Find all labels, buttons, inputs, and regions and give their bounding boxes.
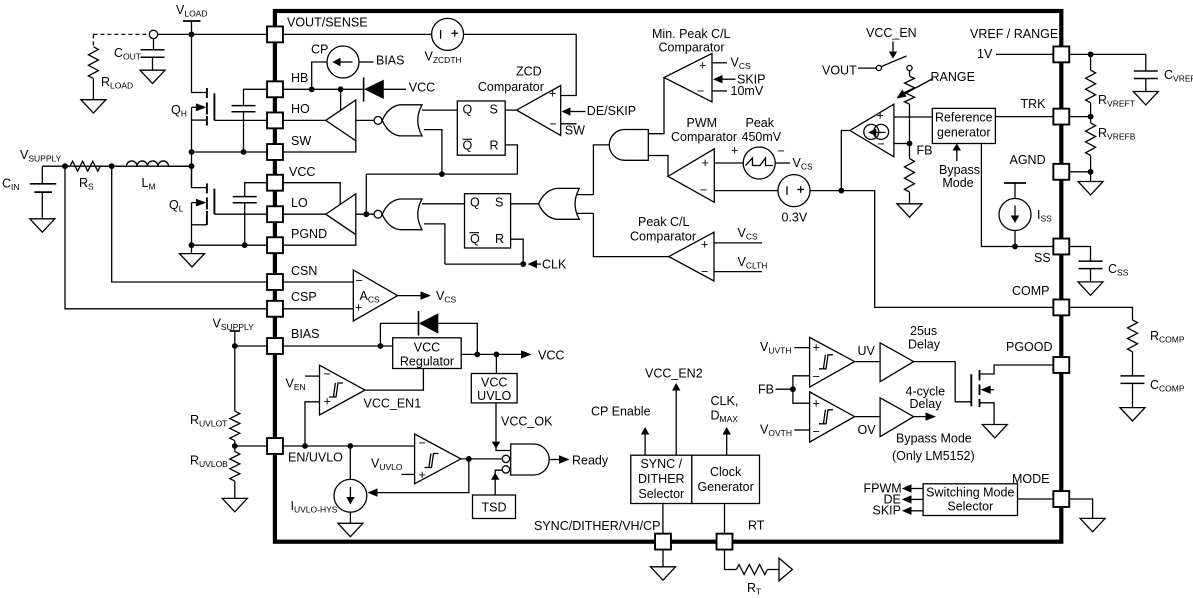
wire CSN sense (112, 166, 267, 282)
label SW (291, 134, 311, 148)
wire OV to delay (855, 416, 881, 418)
wire bar to I_SS (1014, 183, 1016, 199)
label PWM (687, 116, 718, 130)
capacitor C_OUT (141, 50, 165, 58)
label R_S (79, 176, 94, 192)
svg-text:+: + (701, 238, 708, 252)
svg-text:CP: CP (311, 43, 328, 57)
label 10mV (731, 84, 764, 98)
label HO (291, 102, 310, 116)
label FB (917, 144, 933, 158)
wire V_UVTH to UV (794, 347, 809, 349)
svg-text:−: − (697, 84, 704, 98)
junction SW rail (189, 149, 195, 155)
buffer 4-cycle Delay (880, 398, 914, 437)
pin SS (1053, 239, 1069, 255)
wire MinPeak to AND (648, 78, 664, 134)
svg-text:VCC: VCC (481, 376, 507, 390)
pin VCC (267, 175, 283, 191)
label VCC_OK (501, 415, 553, 429)
svg-text:OV: OV (858, 423, 877, 437)
gate OR2 (set) (539, 188, 580, 219)
label Switching Mode (926, 486, 1014, 500)
PWM plus (702, 156, 709, 170)
wire SS pin to C_SS (1070, 247, 1091, 261)
label Peak C/L (638, 215, 689, 229)
junction cross-couple (439, 171, 445, 177)
wire cross-couple to LO net (365, 174, 367, 214)
comparator PWM (668, 149, 714, 203)
output Ready arrow (549, 455, 570, 463)
wire UVLO out (461, 458, 501, 460)
junction V_LOAD node (189, 32, 195, 38)
wire SW net (192, 151, 268, 153)
wire 1V to VREF pin (996, 53, 1053, 55)
PeakCL plus (701, 238, 708, 252)
svg-text:+: + (699, 59, 706, 73)
svg-text:−: − (700, 183, 707, 197)
svg-text:Q: Q (470, 196, 480, 210)
label PWM Comparator (671, 130, 737, 144)
svg-text:+: + (877, 109, 884, 123)
flip-flop FF1 (457, 101, 505, 155)
svg-text:FB: FB (758, 383, 774, 397)
svg-text:SS: SS (1034, 251, 1051, 265)
resistor RANGE (905, 76, 915, 104)
current source CP (327, 46, 359, 78)
label I_UVLO-HYS (291, 499, 338, 515)
wire FB to UV minus (793, 376, 810, 389)
switch blade (881, 56, 906, 67)
capacitor bootstrap C_HB (232, 106, 256, 112)
wire VREF pin to C_VREF (1070, 54, 1146, 70)
label R_UVLOB (190, 454, 228, 470)
label Bypass Mode (942, 176, 973, 190)
wire PWM plus to ramp (714, 162, 744, 164)
label TRK (1021, 97, 1047, 111)
wire PeakCL to OR2 (593, 213, 668, 256)
label FPWM (864, 482, 902, 496)
svg-text:R: R (490, 139, 499, 153)
svg-text:COMP: COMP (1012, 284, 1050, 298)
svg-text:VREF / RANGE: VREF / RANGE (970, 27, 1058, 41)
svg-text:VCC: VCC (409, 81, 435, 95)
svg-text:Peak C/L: Peak C/L (638, 215, 689, 229)
Acs minus (356, 274, 363, 288)
label A_CS (360, 289, 380, 305)
label 4-cycle Delay (910, 397, 943, 411)
label R_UVLOT (190, 413, 227, 429)
label ZCD (516, 65, 542, 79)
label R_T (747, 581, 761, 597)
ground under divider (222, 498, 247, 511)
svg-text:VCC: VCC (538, 349, 564, 363)
buffer 25us Delay (880, 343, 914, 382)
transistor Q_L (192, 183, 215, 225)
wire C_VREF to ground (1145, 79, 1147, 92)
wire to R_UVLOT (234, 346, 236, 411)
pin PGND (267, 237, 283, 253)
label R_VREFB (1098, 126, 1136, 142)
wire QL drain (192, 166, 207, 187)
pin TRK (1053, 109, 1069, 125)
arrow Bypass Mode (953, 144, 961, 162)
wire ZCD to FF1 S (505, 109, 516, 111)
wire V_EN to comparator (305, 375, 320, 377)
svg-text:(Only LM5152): (Only LM5152) (892, 449, 975, 463)
wire HB to CP source (312, 62, 327, 89)
power bar V_SUPPLY (230, 330, 240, 332)
wire EN to VCC_EN1 plus (305, 402, 320, 446)
ground under PGOOD FET (982, 425, 1007, 438)
wire plus input to reference (894, 116, 932, 118)
VCC_EN1 hysteresis (329, 383, 343, 397)
wire bootstrap cap to SW (243, 112, 245, 152)
net label V_SUPPLY (20, 148, 62, 164)
svg-text:BIAS: BIAS (291, 327, 320, 341)
wire VOUT to switch (858, 67, 876, 69)
diode VCC bypass (419, 311, 439, 336)
label RANGE (931, 70, 975, 84)
svg-text:ZCD: ZCD (516, 65, 542, 79)
label VCC net (538, 349, 564, 363)
flip-flop FF2 (465, 194, 511, 248)
label SKIP (737, 73, 766, 87)
label C_COMP (1150, 378, 1185, 394)
wire R_LOAD to ground (92, 79, 94, 100)
block VCC Regulator (393, 338, 462, 369)
label SS (1034, 251, 1051, 265)
label DE/SKIP (587, 104, 636, 118)
label VCC (boot) (409, 81, 435, 95)
label PGND (291, 227, 327, 241)
VCC_EN1 plus (324, 395, 331, 409)
current source I_SS (999, 199, 1031, 231)
label R_COMP (1150, 329, 1185, 345)
wire clock to RT pin (724, 504, 726, 534)
label VCC_EN (866, 26, 917, 40)
block Clock Generator (692, 455, 760, 503)
wire PWM to AND (648, 156, 668, 177)
pin BIAS (267, 338, 283, 354)
wire FF1 Q to NOR1 (422, 109, 457, 111)
svg-text:UVLO: UVLO (477, 389, 511, 403)
FF2 Q label (470, 196, 480, 210)
label 4-cycle (906, 385, 946, 399)
label Vcs (PWM) (793, 156, 813, 172)
comparator UV (810, 337, 855, 387)
label 25us (910, 324, 937, 338)
pin PGOOD (1053, 357, 1069, 373)
bubble Ready input 1 (502, 455, 509, 462)
wire SW-bar stub (561, 123, 577, 125)
wire FF2 S to OR2 (511, 203, 539, 205)
arrow VCC_EN (889, 42, 897, 59)
gate AND (PWM logic) (609, 130, 648, 161)
wire BIAS external (235, 345, 267, 347)
node open circle (VOUT) (149, 30, 157, 38)
FF1 R label (490, 139, 499, 153)
svg-text:Clock: Clock (710, 465, 742, 479)
junction EN hys tap (347, 443, 353, 449)
svg-text:Bypass Mode: Bypass Mode (896, 432, 972, 446)
arrow TSD to gate (491, 470, 502, 495)
wire FF2 R to CLK (511, 239, 524, 264)
svg-text:+: + (731, 144, 738, 158)
svg-text:Q: Q (463, 103, 473, 117)
label MODE (1012, 472, 1050, 486)
ramp minus sign (778, 144, 785, 158)
amplifier A_CS (353, 270, 397, 321)
label CSN (291, 264, 317, 278)
svg-text:25us: 25us (910, 324, 937, 338)
wire R_UVLOT to EN (234, 441, 236, 446)
label CLK (542, 258, 567, 272)
svg-text:Generator: Generator (697, 480, 753, 494)
junction FB uvov (790, 386, 796, 392)
wire Vclth to PeakCL (714, 271, 762, 273)
wire CP to BIAS (359, 61, 374, 63)
wire RT pin to R_T (725, 550, 737, 570)
svg-text:Ready: Ready (572, 454, 609, 468)
wire SW to driver (283, 141, 356, 152)
label TSD (482, 501, 507, 515)
wire R_T to arrow (767, 569, 779, 571)
junction AGND divider (1088, 169, 1094, 175)
wire selector to SYNC pin (662, 504, 664, 534)
svg-text:CLK: CLK (542, 258, 567, 272)
label Reference (935, 111, 993, 125)
svg-text:0.3V: 0.3V (782, 211, 808, 225)
junction FB (907, 141, 913, 147)
input DE/SKIP arrow (562, 107, 586, 115)
pin LO (267, 206, 283, 222)
wire EN/UVLO external (235, 445, 267, 447)
label VOUT (switch) (822, 64, 857, 78)
label PeakCL Comparator (630, 229, 696, 243)
wire switch to RANGE (909, 71, 911, 77)
svg-text:SW: SW (565, 123, 585, 137)
wire Vcs to PeakCL (714, 242, 762, 244)
resistor R_COMP (1128, 320, 1138, 352)
label EN/UVLO (288, 451, 343, 465)
svg-text:Regulator: Regulator (400, 355, 454, 369)
svg-text:SW: SW (291, 134, 311, 148)
wire PGOOD drain to pin (980, 365, 1054, 374)
label Q_H (171, 103, 187, 119)
svg-text:PGND: PGND (291, 227, 327, 241)
gate NOR2 (LO) (374, 199, 422, 230)
PeakCL minus (701, 265, 708, 279)
label DE (884, 493, 901, 507)
svg-text:VCC_OK: VCC_OK (501, 415, 553, 429)
wire EN/UVLO internal (283, 445, 415, 447)
wire cap to PGND (244, 203, 246, 245)
OV minus (813, 425, 820, 439)
dashed wire to R_LOAD (93, 34, 149, 46)
wire CSP sense (65, 166, 267, 309)
label AGND (1010, 153, 1046, 167)
junction EN divider (232, 443, 238, 449)
label Clock (710, 465, 742, 479)
wire VOUT node to VOUT/SENSE pin (158, 33, 267, 35)
ground under C_COMP (1120, 408, 1145, 421)
label V_EN (286, 377, 306, 393)
power bar V_LOAD (183, 20, 201, 22)
label 25us Delay (908, 338, 941, 352)
pin SYNC/DITHER/VH/CP (655, 534, 671, 550)
pin CSP (267, 301, 283, 317)
wire source rail (191, 107, 193, 187)
svg-text:SYNC /: SYNC / (640, 457, 682, 471)
ground under divider (AGND) (1078, 172, 1103, 195)
resistor FB bottom (905, 159, 915, 192)
UV minus (813, 370, 820, 384)
arrow RANGE adjust (897, 79, 934, 99)
label Bypass (939, 163, 980, 177)
wire PGND net (192, 244, 268, 246)
svg-text:RT: RT (748, 519, 765, 533)
block VCC UVLO (471, 374, 517, 403)
label C_OUT (114, 46, 141, 62)
wire QL source rail (191, 203, 193, 246)
label 1V (977, 47, 993, 61)
label BIAS net (376, 54, 405, 68)
Acs plus (355, 301, 362, 315)
label VCC Regulator 1 (414, 341, 440, 355)
OV plus (813, 397, 820, 411)
junction SS (1012, 244, 1018, 250)
label V_UVTH (760, 340, 791, 356)
op-amp error amplifier (850, 104, 894, 157)
svg-text:S: S (490, 103, 498, 117)
wire QL gate to LO pin (214, 213, 267, 215)
svg-text:−: − (778, 144, 785, 158)
ground under C_OUT (140, 70, 165, 83)
label Vcs (MinPeak) (731, 56, 751, 72)
svg-text:HO: HO (291, 102, 310, 116)
svg-text:10mV: 10mV (731, 84, 764, 98)
transistor PGOOD (971, 370, 994, 407)
wire FB to OV plus (793, 389, 810, 403)
FF1 Q label (463, 103, 473, 117)
FF1 Qbar label (463, 139, 473, 153)
pin AGND (1053, 164, 1069, 180)
svg-text:450mV: 450mV (742, 130, 782, 144)
error amp gm symbol (864, 124, 889, 139)
wire V_ZCDTH to ZCD comparator (464, 34, 577, 95)
net label V_LOAD (176, 3, 208, 19)
label CLK, (711, 394, 739, 408)
label UV (858, 344, 876, 358)
label Bypass Mode (pgood) (896, 432, 972, 446)
wire divider (234, 446, 236, 498)
svg-text:Min. Peak C/L: Min. Peak C/L (652, 27, 731, 41)
svg-text:TRK: TRK (1021, 97, 1047, 111)
label Selector (638, 487, 684, 501)
wire VCC node (461, 350, 531, 358)
svg-text:−: − (813, 370, 820, 384)
svg-text:VCC_EN2: VCC_EN2 (645, 367, 703, 381)
junction COMP node (838, 188, 844, 194)
label CP (311, 43, 328, 57)
junction UVLO out (466, 456, 472, 462)
label BIAS pin (291, 327, 320, 341)
pin RT (717, 534, 733, 550)
svg-text:CP Enable: CP Enable (591, 405, 651, 419)
label Min. Peak C/L (652, 27, 731, 41)
label Only LM5152 (892, 449, 975, 463)
svg-text:VOUT: VOUT (822, 64, 857, 78)
svg-text:FB: FB (917, 144, 933, 158)
wire COMP pin to R_COMP (1070, 307, 1133, 320)
resistor R_VREFB (1086, 117, 1096, 172)
svg-text:HB: HB (291, 71, 308, 85)
wire C_COMP to ground (1132, 383, 1134, 407)
pin COMP (1053, 299, 1069, 315)
capacitor C_COMP (1121, 376, 1145, 384)
ZCD plus (549, 87, 556, 101)
svg-text:LO: LO (291, 196, 308, 210)
svg-text:−: − (356, 274, 363, 288)
label VCC_EN1 (364, 397, 422, 411)
wire HB internal (283, 88, 364, 90)
svg-text:SYNC/DITHER/VH/CP: SYNC/DITHER/VH/CP (534, 519, 660, 533)
svg-text:−: − (324, 367, 331, 381)
label LO (291, 196, 308, 210)
label Vcs (PeakCL) (738, 226, 758, 242)
FF2 Qbar label (470, 232, 481, 246)
wire QH gate to HO pin (214, 119, 267, 121)
pin SW (267, 144, 283, 160)
junction HB driver (338, 86, 344, 92)
junction VREF divider (1088, 52, 1094, 58)
svg-text:Switching Mode: Switching Mode (926, 486, 1014, 500)
output FPWM arrow (902, 484, 923, 492)
svg-text:CSN: CSN (291, 264, 317, 278)
label VREF / RANGE (970, 27, 1058, 41)
label DITHER (638, 472, 685, 486)
label 450mV (742, 130, 782, 144)
ground under Q_L (180, 245, 205, 267)
label VCC Regulator 2 (400, 355, 454, 369)
wire MODE pin to ground (1070, 499, 1093, 518)
comparator OV (810, 392, 855, 442)
wire minus input to FB (894, 143, 910, 145)
label R_VREFT (1098, 93, 1135, 109)
IC boundary (LM5152 controller) (275, 11, 1061, 542)
svg-text:−: − (419, 436, 426, 450)
label Ready (572, 454, 609, 468)
comparator UVLO (415, 434, 461, 484)
label L_M (142, 176, 156, 192)
block TSD (473, 495, 516, 519)
pin MODE (1053, 491, 1069, 507)
output SKIP arrow (902, 507, 923, 515)
svg-text:Comparator: Comparator (630, 229, 696, 243)
FF1 S label (490, 103, 498, 117)
buffer HO driver (326, 100, 356, 141)
inductor L_M (100, 161, 191, 166)
resistor R_S (70, 161, 100, 171)
svg-text:Q: Q (470, 232, 480, 246)
wire VCC to UVLO block (495, 354, 497, 373)
wire VOUT/SENSE to V_ZCDTH (283, 33, 432, 35)
junction BIAS tap (232, 343, 238, 349)
wire UV to delay (855, 361, 881, 363)
transistor Q_H (192, 88, 215, 126)
svg-text:VOUT/SENSE: VOUT/SENSE (287, 16, 368, 30)
